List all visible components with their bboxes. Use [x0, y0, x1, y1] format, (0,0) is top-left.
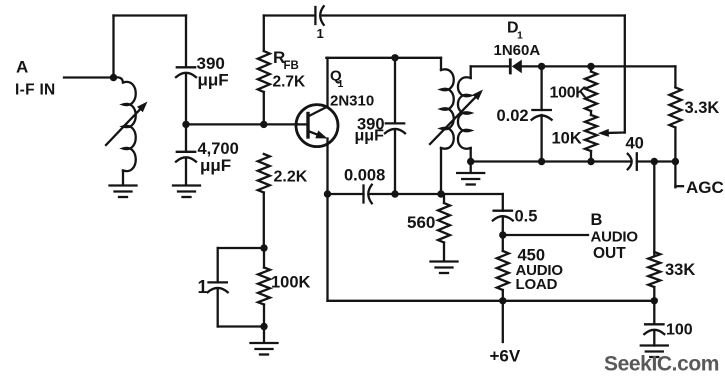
svg-text:3.3K: 3.3K	[685, 99, 720, 117]
svg-text:I-F IN: I-F IN	[15, 82, 56, 99]
svg-text:AUDIO: AUDIO	[591, 229, 639, 246]
svg-text:1: 1	[338, 78, 344, 90]
svg-text:A: A	[16, 58, 28, 77]
svg-text:0.008: 0.008	[344, 167, 385, 185]
svg-text:100K: 100K	[271, 274, 311, 292]
svg-text:2N310: 2N310	[330, 93, 374, 110]
svg-text:μμF: μμF	[200, 156, 231, 175]
svg-text:40: 40	[626, 135, 644, 153]
svg-text:μμF: μμF	[198, 71, 229, 90]
svg-text:0.02: 0.02	[497, 107, 529, 125]
svg-text:100K: 100K	[550, 85, 588, 102]
svg-text:FB: FB	[284, 60, 299, 72]
svg-text:10K: 10K	[552, 130, 582, 148]
svg-text:SeekIC.com: SeekIC.com	[604, 353, 719, 376]
svg-text:2.7K: 2.7K	[273, 74, 307, 91]
svg-text:B: B	[591, 211, 603, 229]
svg-text:33K: 33K	[665, 261, 695, 279]
svg-text:100: 100	[666, 322, 693, 339]
svg-text:LOAD: LOAD	[516, 276, 558, 293]
svg-text:1N60A: 1N60A	[494, 42, 541, 59]
svg-text:OUT: OUT	[593, 245, 626, 262]
svg-text:1: 1	[317, 26, 324, 41]
svg-text:2.2K: 2.2K	[274, 169, 308, 186]
svg-text:1: 1	[517, 30, 523, 42]
svg-text:1: 1	[198, 277, 208, 297]
svg-text:0.5: 0.5	[515, 208, 538, 226]
svg-text:AGC: AGC	[686, 178, 724, 197]
svg-text:560: 560	[407, 213, 435, 232]
svg-text:+6V: +6V	[490, 347, 521, 366]
svg-text:μμF: μμF	[355, 128, 385, 145]
